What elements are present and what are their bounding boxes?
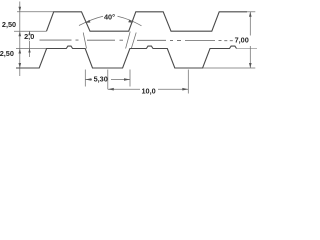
svg-text:2,50: 2,50 <box>0 49 14 58</box>
svg-text:5,30: 5,30 <box>94 75 108 84</box>
svg-text:2,50: 2,50 <box>2 20 16 29</box>
svg-text:10,0: 10,0 <box>141 87 155 96</box>
svg-text:40°: 40° <box>104 13 115 22</box>
svg-text:7,00: 7,00 <box>235 36 249 45</box>
svg-text:2,0: 2,0 <box>24 32 34 41</box>
